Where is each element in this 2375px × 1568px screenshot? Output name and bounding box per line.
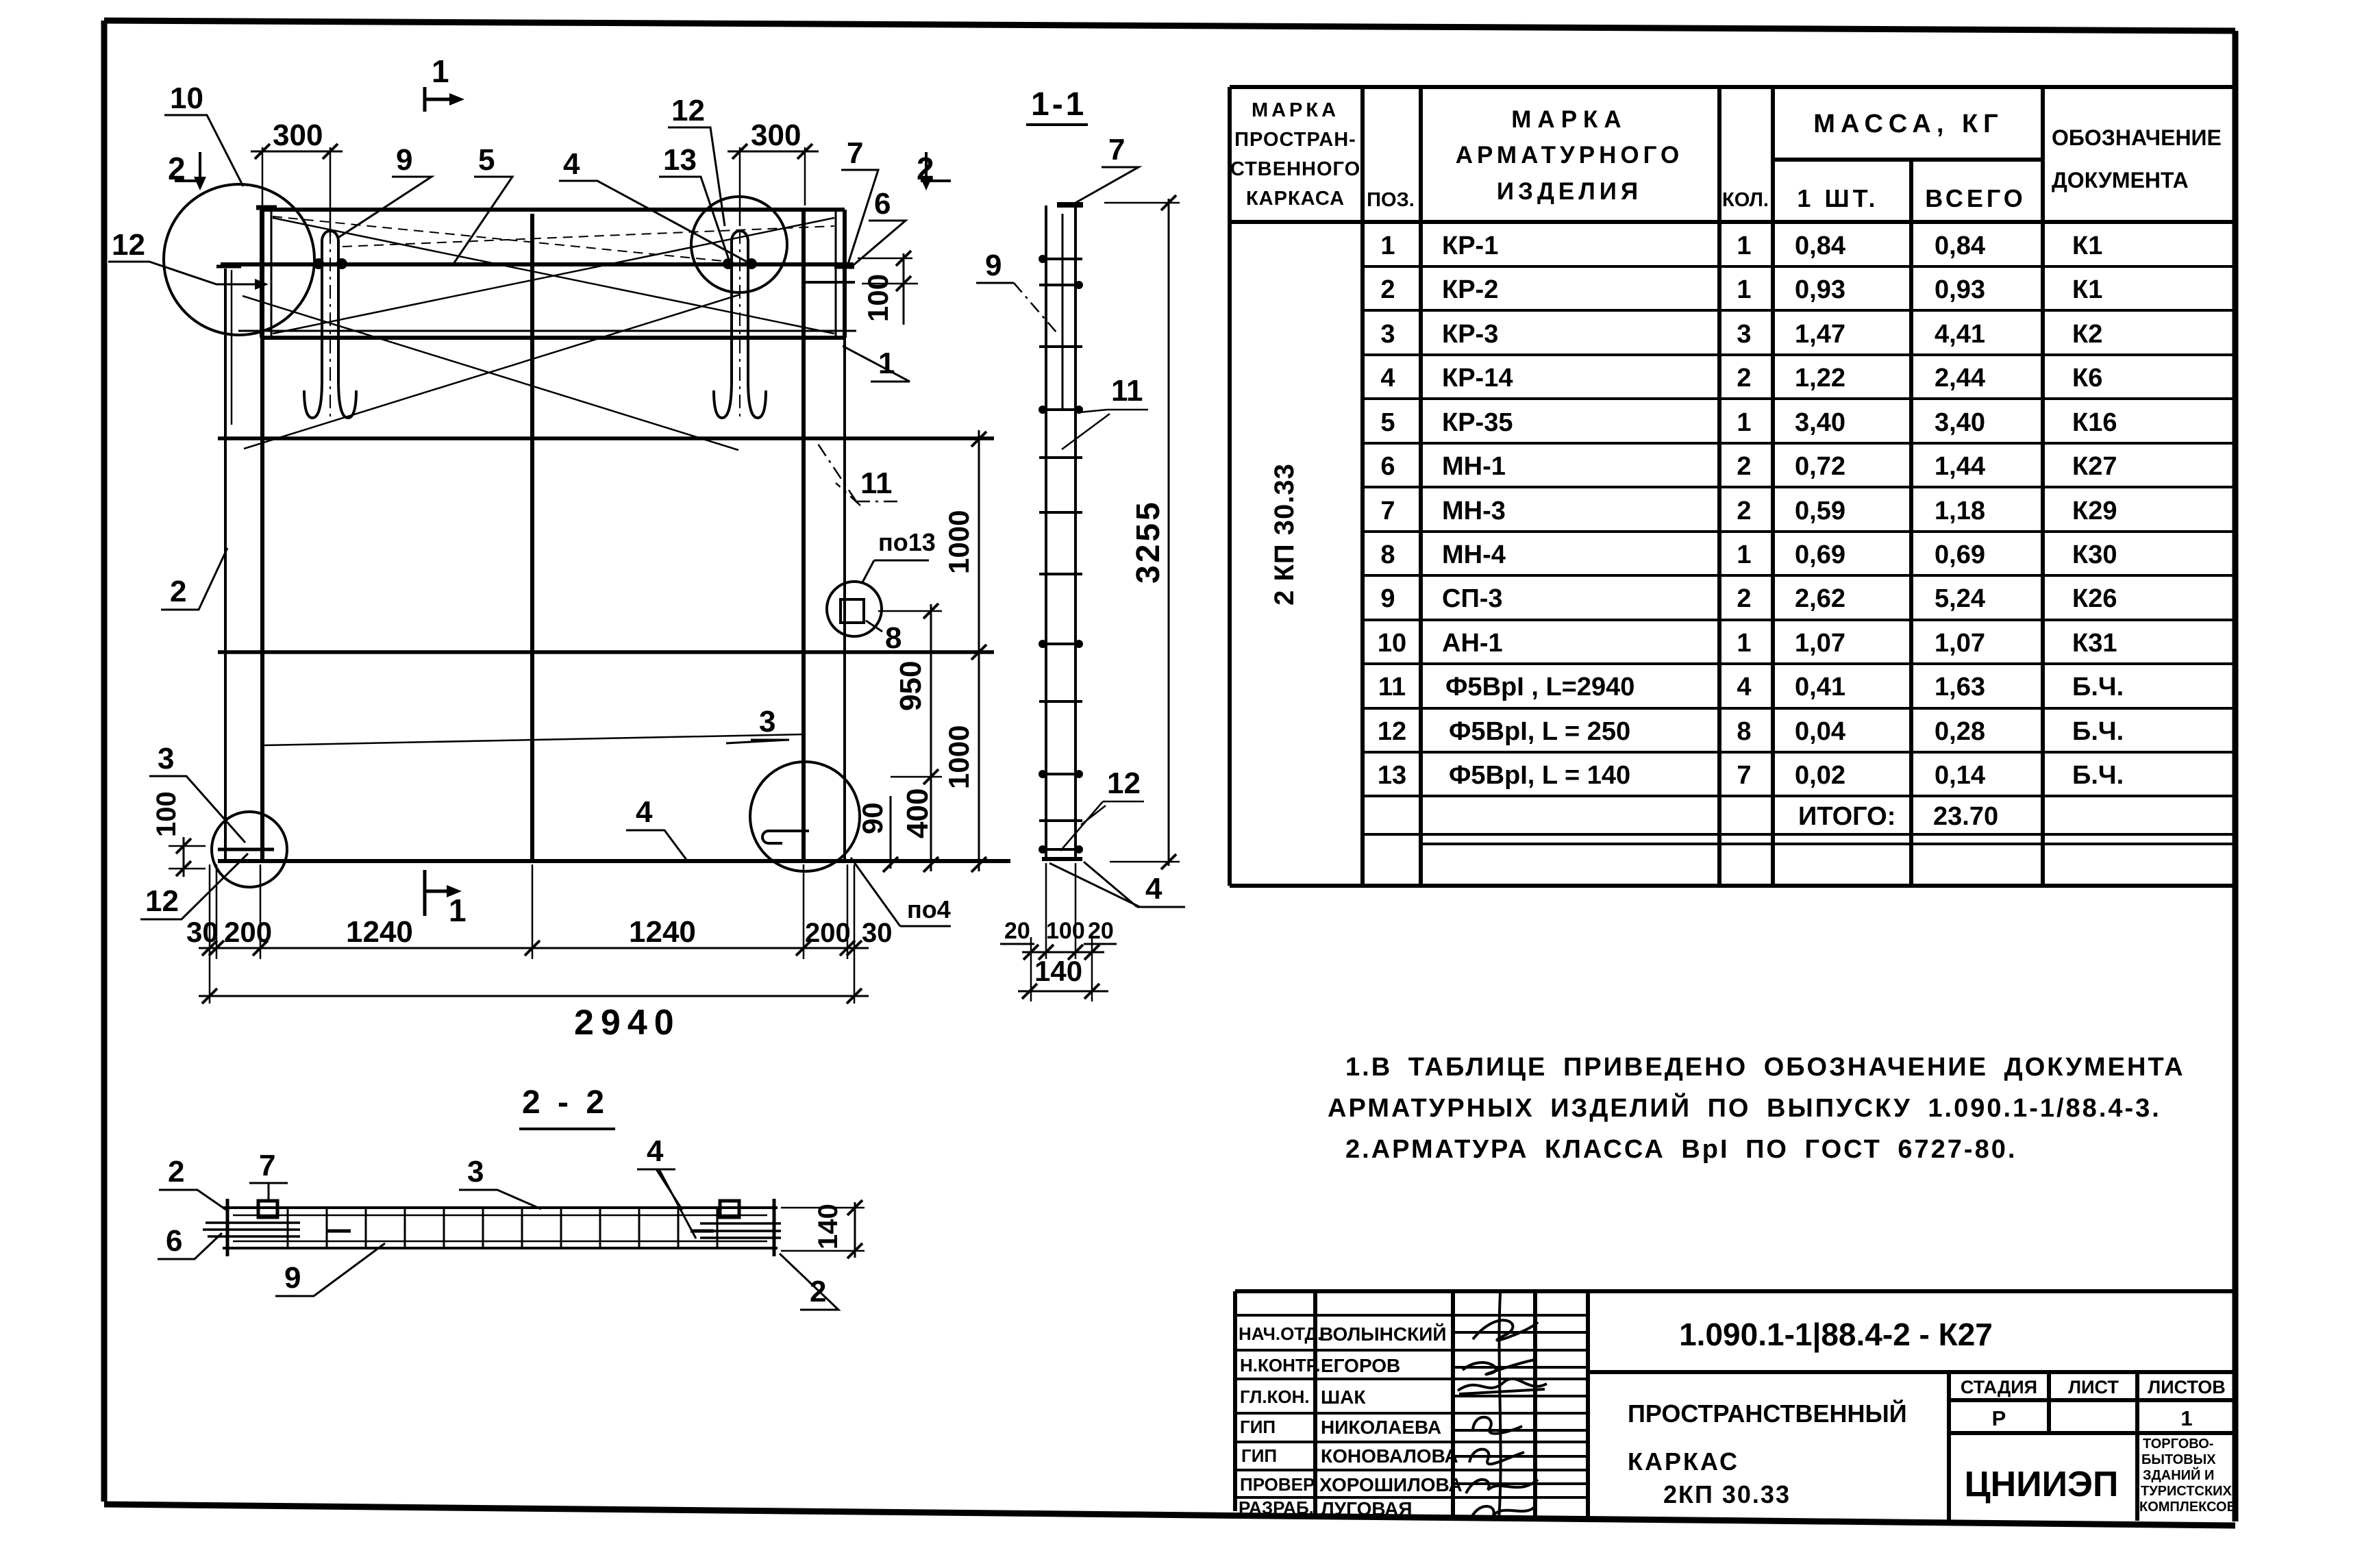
dim 90 [856, 796, 898, 872]
detail circle top-right [691, 197, 787, 293]
svg-text:КАРКАС: КАРКАС [1628, 1447, 1739, 1476]
svg-text:ИЗДЕЛИЯ: ИЗДЕЛИЯ [1497, 178, 1642, 205]
svg-text:1,47: 1,47 [1795, 320, 1845, 349]
label 13 [659, 143, 730, 264]
svg-text:КР-3: КР-3 [1442, 320, 1498, 349]
svg-text:1: 1 [2180, 1406, 2192, 1430]
svg-text:9: 9 [1380, 584, 1395, 613]
svg-text:0,04: 0,04 [1795, 717, 1845, 746]
label 2 sec2-2 right [780, 1254, 838, 1310]
svg-text:300: 300 [751, 119, 801, 152]
thin bar pos3 line [264, 734, 804, 745]
svg-text:140: 140 [813, 1204, 843, 1249]
svg-text:200: 200 [805, 918, 851, 948]
svg-text:0,93: 0,93 [1935, 275, 1985, 304]
dim 300 left top [251, 119, 343, 236]
svg-text:90: 90 [856, 802, 888, 834]
svg-text:9: 9 [985, 249, 1002, 282]
svg-text:ЕГОРОВ: ЕГОРОВ [1321, 1355, 1400, 1376]
svg-text:ПРОВЕР.: ПРОВЕР. [1240, 1474, 1317, 1495]
dim chain 950/400 [878, 603, 942, 872]
label 11 sec1-1 [1062, 374, 1148, 449]
svg-text:ГИП: ГИП [1240, 1417, 1276, 1437]
svg-text:2,62: 2,62 [1795, 584, 1845, 613]
svg-text:АН-1: АН-1 [1442, 629, 1503, 658]
svg-text:Ф5ВрI, L = 250: Ф5ВрI, L = 250 [1449, 717, 1630, 746]
svg-text:2: 2 [1737, 584, 1751, 613]
svg-text:13: 13 [1378, 761, 1406, 790]
label 7 sec1-1 [1075, 133, 1139, 203]
dim chain 1000/1000 right [943, 430, 992, 872]
svg-text:0,02: 0,02 [1795, 761, 1845, 790]
svg-text:2940: 2940 [574, 1003, 681, 1043]
svg-text:2 - 2: 2 - 2 [522, 1084, 608, 1121]
vertical bar pos2 left thin [216, 266, 241, 860]
notes text [1328, 1053, 2185, 1164]
svg-text:СТВЕННОГО: СТВЕННОГО [1230, 158, 1360, 180]
svg-text:0,72: 0,72 [1795, 452, 1845, 481]
hook in bottom-right circle [762, 831, 809, 843]
svg-text:1240: 1240 [346, 915, 413, 949]
svg-text:СТАДИЯ: СТАДИЯ [1961, 1377, 2037, 1397]
svg-text:7: 7 [1380, 497, 1395, 525]
svg-text:по4: по4 [907, 895, 951, 923]
svg-text:1,18: 1,18 [1935, 497, 1985, 525]
label 4 bottom [626, 795, 686, 860]
svg-text:БЫТОВЫХ: БЫТОВЫХ [2141, 1452, 2216, 1467]
svg-text:7: 7 [1737, 761, 1751, 790]
svg-text:8: 8 [885, 621, 901, 655]
svg-text:0,14: 0,14 [1935, 761, 1985, 790]
svg-text:1000: 1000 [943, 725, 975, 789]
svg-text:ПОЗ.: ПОЗ. [1367, 189, 1415, 211]
section 2-2 protruding bars pos6 [203, 1223, 781, 1238]
svg-text:ВОЛЫНСКИЙ: ВОЛЫНСКИЙ [1319, 1323, 1446, 1345]
svg-text:К29: К29 [2072, 497, 2117, 525]
title block names [1319, 1323, 1463, 1519]
hairpin pos9 left [304, 230, 356, 419]
svg-text:1.090.1-1|88.4-2 - К27: 1.090.1-1|88.4-2 - К27 [1679, 1317, 1993, 1352]
svg-text:КР-2: КР-2 [1442, 275, 1498, 304]
svg-text:АРМАТУРНОГО: АРМАТУРНОГО [1456, 142, 1683, 169]
svg-text:1,22: 1,22 [1795, 364, 1845, 393]
svg-text:1: 1 [1737, 275, 1751, 304]
svg-text:12: 12 [145, 884, 179, 918]
svg-text:13: 13 [663, 143, 697, 177]
svg-text:2КП 30.33: 2КП 30.33 [1663, 1480, 1791, 1508]
svg-text:4: 4 [1737, 673, 1751, 701]
svg-text:ГИП: ГИП [1241, 1445, 1277, 1466]
beam cross diagonals [243, 216, 834, 450]
svg-text:5: 5 [1380, 408, 1395, 437]
svg-text:КОНОВАЛОВА: КОНОВАЛОВА [1321, 1445, 1458, 1467]
svg-text:НИКОЛАЕВА: НИКОЛАЕВА [1321, 1417, 1441, 1438]
plan view: top beam KR-35 pos5 chords [221, 210, 856, 338]
svg-text:0,84: 0,84 [1795, 232, 1845, 260]
svg-text:2 КП 30.33: 2 КП 30.33 [1269, 463, 1300, 606]
label 4 sec1-1 [1049, 862, 1185, 907]
label 3 right [726, 705, 789, 743]
svg-text:РАЗРАБ.: РАЗРАБ. [1239, 1497, 1314, 1518]
label 12 top-right [668, 94, 725, 226]
hairpin pos9 right [714, 230, 766, 419]
dim 100 top right [858, 251, 918, 325]
svg-text:1,07: 1,07 [1795, 629, 1845, 658]
dim 3255 [1104, 195, 1180, 869]
svg-text:1: 1 [878, 347, 895, 380]
svg-text:2: 2 [1380, 275, 1395, 304]
label 9 sec2-2 [275, 1243, 385, 1296]
svg-text:К2: К2 [2072, 320, 2102, 349]
svg-text:1: 1 [1737, 629, 1751, 658]
svg-text:1 ШТ.: 1 ШТ. [1797, 184, 1878, 212]
svg-text:ПРОСТРАНСТВЕННЫЙ: ПРОСТРАНСТВЕННЫЙ [1628, 1399, 1907, 1428]
label 5 plan [453, 143, 512, 264]
svg-text:4: 4 [563, 147, 580, 181]
svg-text:2.АРМАТУРА КЛАССА ВрI ПО Г: 2.АРМАТУРА КЛАССА ВрI ПО ГОСТ 6727-80. [1345, 1135, 2017, 1164]
svg-text:ХОРОШИЛОВА: ХОРОШИЛОВА [1319, 1474, 1463, 1495]
svg-text:9: 9 [284, 1261, 301, 1295]
svg-text:СП-3: СП-3 [1442, 584, 1503, 613]
svg-text:23.70: 23.70 [1933, 802, 1998, 831]
svg-text:1: 1 [432, 53, 449, 89]
svg-text:1,44: 1,44 [1935, 452, 1985, 481]
svg-text:3,40: 3,40 [1795, 408, 1845, 437]
svg-text:2: 2 [1737, 452, 1751, 481]
bar end in bottom-left circle [218, 848, 274, 851]
svg-text:1: 1 [1737, 232, 1751, 260]
svg-text:К27: К27 [2072, 452, 2117, 481]
svg-text:2: 2 [170, 575, 186, 608]
label 12 sec1-1 [1060, 767, 1144, 851]
beam end bracket right [804, 210, 855, 338]
svg-text:300: 300 [273, 119, 323, 152]
label 9 sec1-1 [976, 249, 1056, 332]
svg-text:1.В ТАБЛИЦЕ ПРИВЕДЕНО ОБОЗНА: 1.В ТАБЛИЦЕ ПРИВЕДЕНО ОБОЗНАЧЕНИЕ ДОКУМЕ… [1345, 1053, 2185, 1082]
svg-text:3: 3 [759, 705, 775, 738]
beam end bracket left pos10 [256, 208, 277, 338]
svg-text:0,69: 0,69 [1935, 540, 1985, 569]
svg-text:МН-3: МН-3 [1442, 497, 1506, 525]
svg-text:5: 5 [478, 143, 495, 177]
svg-text:ДОКУМЕНТА: ДОКУМЕНТА [2052, 168, 2189, 192]
svg-text:2: 2 [1737, 497, 1751, 525]
label 6 sec2-2 [158, 1224, 222, 1259]
svg-text:3,40: 3,40 [1935, 408, 1985, 437]
label 4 sec2-2 [637, 1134, 696, 1239]
label 2 sec2-2 left [159, 1155, 226, 1210]
svg-text:0,84: 0,84 [1935, 232, 1985, 260]
svg-text:1: 1 [1737, 408, 1751, 437]
svg-text:4,41: 4,41 [1935, 320, 1985, 349]
svg-text:Н.КОНТР.: Н.КОНТР. [1240, 1355, 1320, 1376]
svg-text:0,69: 0,69 [1795, 540, 1845, 569]
svg-text:ШАК: ШАК [1321, 1386, 1366, 1408]
label 3 left-bottom [149, 742, 245, 843]
section 1-1 top cap pos7 [1057, 202, 1083, 208]
dim 100 bottom-left [151, 791, 206, 877]
svg-text:140: 140 [1034, 955, 1082, 987]
horizontal grid bar pos11 lower [218, 650, 994, 654]
svg-text:КОМПЛЕКСОВ: КОМПЛЕКСОВ [2139, 1499, 2237, 1515]
svg-text:К1: К1 [2072, 275, 2102, 304]
section 1-1 column verticals [1046, 206, 1075, 860]
svg-text:ВСЕГО: ВСЕГО [1925, 184, 2026, 212]
svg-text:3: 3 [1380, 320, 1395, 349]
svg-text:0,41: 0,41 [1795, 673, 1845, 701]
svg-text:10: 10 [1378, 629, 1406, 658]
svg-text:МАРКА: МАРКА [1511, 106, 1627, 133]
svg-text:МАССА, КГ: МАССА, КГ [1813, 110, 2003, 138]
svg-text:4: 4 [1380, 364, 1395, 393]
svg-text:1,07: 1,07 [1935, 629, 1985, 658]
svg-text:100: 100 [151, 791, 182, 837]
section 1-1 weld dots [1039, 255, 1083, 854]
svg-text:К26: К26 [2072, 584, 2117, 613]
svg-text:Ф5ВрI, L = 140: Ф5ВрI, L = 140 [1449, 761, 1630, 790]
svg-text:3255: 3255 [1130, 499, 1167, 584]
section 2-2 beam chords [223, 1208, 778, 1248]
svg-text:К30: К30 [2072, 540, 2117, 569]
svg-text:КР-14: КР-14 [1442, 364, 1513, 393]
parts table grid [1230, 87, 2235, 886]
section mark 1 bottom [425, 870, 467, 928]
label po4 [851, 858, 951, 926]
svg-text:11: 11 [1111, 374, 1143, 408]
svg-text:КАРКАСА: КАРКАСА [1246, 188, 1345, 210]
svg-text:4: 4 [636, 795, 653, 829]
svg-text:ЛИСТ: ЛИСТ [2068, 1377, 2119, 1397]
svg-text:7: 7 [259, 1149, 275, 1182]
label 2 left-mid [161, 548, 227, 610]
svg-text:11: 11 [860, 466, 893, 500]
svg-text:0,28: 0,28 [1935, 717, 1985, 746]
label 6 plan [849, 187, 906, 269]
svg-text:ТУРИСТСКИХ: ТУРИСТСКИХ [2141, 1484, 2233, 1499]
svg-text:ЦНИИЭП: ЦНИИЭП [1965, 1465, 2119, 1504]
section mark 2 left [168, 151, 206, 190]
label 9 plan [337, 143, 432, 238]
label 3 sec2-2 [459, 1155, 541, 1209]
table header texts [1230, 99, 2222, 212]
svg-text:1240: 1240 [629, 915, 696, 949]
svg-text:ЗДАНИЙ И: ЗДАНИЙ И [2143, 1467, 2214, 1483]
vertical main left edge [260, 210, 264, 861]
sec1-1 bottom dim extensions [1031, 863, 1092, 1001]
weld dots [313, 258, 757, 269]
svg-text:20: 20 [1088, 918, 1114, 944]
svg-text:4: 4 [1145, 872, 1162, 906]
svg-text:20: 20 [1004, 918, 1030, 944]
dim 140 sec1-1 [1018, 955, 1108, 999]
svg-text:950: 950 [894, 661, 928, 711]
dim 20/100/20 [1000, 918, 1117, 960]
title block role labels [1239, 1323, 1322, 1518]
svg-text:МАРКА: МАРКА [1252, 99, 1339, 121]
label 8 [866, 621, 901, 655]
svg-text:0,93: 0,93 [1795, 275, 1845, 304]
svg-text:400: 400 [901, 788, 934, 838]
section 1-1 rungs [1039, 259, 1082, 849]
svg-text:1: 1 [449, 893, 467, 928]
horizontal grid bar pos11 upper [218, 436, 994, 440]
svg-text:ГЛ.КОН.: ГЛ.КОН. [1240, 1386, 1310, 1407]
svg-text:ОБОЗНАЧЕНИЕ: ОБОЗНАЧЕНИЕ [2052, 125, 2222, 150]
svg-text:0,59: 0,59 [1795, 497, 1845, 525]
svg-text:30: 30 [862, 918, 893, 948]
label 7 plan [841, 136, 878, 264]
signatures squiggles [1458, 1293, 1547, 1519]
svg-text:10: 10 [170, 82, 203, 115]
svg-text:НАЧ.ОТД.: НАЧ.ОТД. [1239, 1323, 1322, 1344]
detail circle bottom-right po4 [750, 762, 860, 871]
svg-text:100: 100 [1046, 918, 1085, 944]
title block grid [1235, 1291, 2235, 1521]
svg-text:ЛУГОВАЯ: ЛУГОВАЯ [1321, 1498, 1413, 1519]
label 12 bottom-left [140, 854, 248, 919]
svg-text:Б.Ч.: Б.Ч. [2072, 761, 2124, 790]
bottom dim row 30/200/1240/1240/200/30 [186, 915, 893, 956]
svg-text:по13: по13 [878, 528, 936, 556]
stage / sheet cells [1961, 1377, 2226, 1430]
bottom chord pos4 [218, 859, 1010, 863]
svg-text:ПРОСТРАН-: ПРОСТРАН- [1234, 129, 1356, 151]
institute subtitle [2139, 1436, 2237, 1515]
svg-text:12: 12 [1378, 717, 1406, 746]
svg-text:3: 3 [467, 1155, 484, 1189]
svg-text:1: 1 [1737, 540, 1751, 569]
svg-text:200: 200 [224, 916, 272, 948]
label 12 upper-left [108, 228, 269, 290]
svg-text:30: 30 [186, 916, 219, 948]
svg-text:Б.Ч.: Б.Ч. [2072, 717, 2124, 746]
label 1 right [843, 346, 910, 382]
section mark 2 right [917, 151, 951, 190]
svg-text:ТОРГОВО-: ТОРГОВО- [2143, 1436, 2213, 1452]
svg-text:12: 12 [112, 228, 145, 262]
svg-text:11: 11 [1378, 673, 1406, 701]
svg-text:К6: К6 [2072, 364, 2102, 393]
svg-text:Ф5ВрI , L=2940: Ф5ВрI , L=2940 [1445, 673, 1634, 701]
svg-text:2: 2 [1737, 364, 1751, 393]
section mark 1 top [425, 53, 464, 112]
svg-text:1,63: 1,63 [1935, 673, 1985, 701]
svg-text:К1: К1 [2072, 232, 2102, 260]
svg-text:9: 9 [396, 143, 412, 177]
svg-text:КР-35: КР-35 [1442, 408, 1513, 437]
svg-text:12: 12 [1107, 767, 1141, 800]
svg-text:К31: К31 [2072, 629, 2117, 658]
svg-text:100: 100 [862, 274, 894, 322]
label po13 [862, 528, 936, 584]
bottom dim extension lines [210, 864, 854, 1004]
svg-text:1: 1 [1380, 232, 1395, 260]
svg-text:4: 4 [647, 1134, 664, 1168]
svg-text:6: 6 [1380, 452, 1395, 481]
dim 140 sec2-2 [781, 1200, 865, 1258]
svg-text:7: 7 [847, 136, 863, 170]
svg-text:МН-4: МН-4 [1442, 540, 1506, 569]
svg-text:К16: К16 [2072, 408, 2117, 437]
svg-text:ИТОГО:: ИТОГО: [1798, 802, 1895, 831]
svg-text:2,44: 2,44 [1935, 364, 1985, 393]
svg-text:3: 3 [158, 742, 174, 775]
svg-text:8: 8 [1737, 717, 1751, 746]
section 2-2 beam ends [227, 1199, 774, 1256]
vertical main right edge [801, 210, 806, 861]
svg-text:КР-1: КР-1 [1442, 232, 1498, 260]
svg-text:КОЛ.: КОЛ. [1722, 189, 1769, 211]
detail circle top-left [164, 184, 314, 335]
label 7 sec2-2 [249, 1149, 288, 1202]
section 2-2 title [519, 1084, 615, 1129]
svg-text:3: 3 [1737, 320, 1751, 349]
svg-text:1000: 1000 [943, 510, 975, 574]
section 2-2 rungs [288, 1208, 717, 1248]
svg-text:1-1: 1-1 [1031, 86, 1086, 123]
section 2-2 end anchor squares pos7 [258, 1201, 277, 1217]
mesh square pos13 [841, 599, 864, 623]
svg-text:Р: Р [1992, 1406, 2006, 1430]
svg-text:7: 7 [1108, 133, 1125, 166]
dim 300 right top [728, 119, 819, 226]
detail circle bottom-left [212, 812, 287, 887]
svg-text:ЛИСТОВ: ЛИСТОВ [2148, 1377, 2226, 1397]
svg-text:8: 8 [1380, 540, 1395, 569]
section 1-1 inner bar pos9 [1062, 214, 1064, 411]
label 4 top [559, 147, 747, 262]
svg-text:Б.Ч.: Б.Ч. [2072, 673, 2124, 701]
vertical bar pos1 right thin [834, 210, 854, 860]
vertical centre line [530, 214, 534, 861]
label 11 plan [817, 442, 897, 506]
svg-text:5,24: 5,24 [1935, 584, 1985, 613]
label 10 [164, 82, 243, 186]
section 1-1 bottom cap [1042, 857, 1082, 861]
table data rows [1378, 232, 2124, 831]
svg-text:2: 2 [168, 1155, 184, 1189]
svg-text:12: 12 [671, 94, 705, 127]
svg-text:6: 6 [874, 187, 891, 221]
detail circle po13 [827, 582, 882, 636]
bottom dim row 2940 [199, 988, 869, 1043]
section 1-1 title [1026, 86, 1088, 125]
svg-text:МН-1: МН-1 [1442, 452, 1506, 481]
svg-text:АРМАТУРНЫХ ИЗДЕЛИЙ ПО ВЫПУСК: АРМАТУРНЫХ ИЗДЕЛИЙ ПО ВЫПУСКУ 1.090.1-1/… [1328, 1092, 2161, 1123]
svg-text:6: 6 [166, 1224, 182, 1258]
